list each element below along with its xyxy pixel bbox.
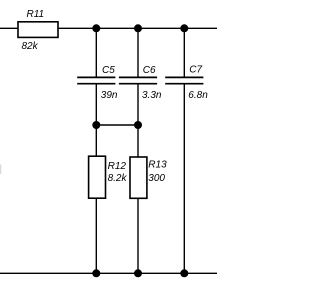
wire top net right segment	[58, 27, 217, 29]
wire R12 bottom lead	[95, 198, 97, 273]
svg-text:300: 300	[148, 173, 165, 184]
svg-text:C6: C6	[143, 65, 156, 76]
wire node row horizontal	[96, 124, 138, 126]
resistor R12	[89, 156, 106, 198]
junction dot top col1	[92, 24, 100, 32]
wire column1 top (C5 upper lead)	[95, 28, 97, 76]
capacitor C5	[77, 77, 115, 83]
junction dot top col2	[134, 24, 142, 32]
svg-text:R12: R12	[108, 161, 127, 172]
svg-text:82k: 82k	[22, 41, 39, 52]
wire C7 lower lead to bottom net	[183, 85, 185, 274]
junction dot bottom col2	[134, 269, 142, 277]
svg-text:39n: 39n	[101, 90, 118, 101]
capacitor C6	[119, 77, 157, 83]
wire C6 lower lead to node	[137, 85, 139, 126]
cropped text remnant at left edge	[0, 165, 1, 175]
junction dot node col1	[92, 121, 100, 129]
svg-text:R13: R13	[148, 159, 167, 170]
wire column2 top (C6 upper lead)	[137, 28, 139, 76]
svg-text:C5: C5	[102, 65, 115, 76]
svg-text:R11: R11	[27, 9, 45, 20]
wire C5 lower lead to node	[95, 85, 97, 126]
svg-text:C7: C7	[189, 65, 202, 76]
junction dot bottom col3	[180, 269, 188, 277]
wire top net left segment	[0, 27, 18, 29]
junction dot node col2	[134, 121, 142, 129]
resistor R11	[18, 22, 58, 38]
svg-text:3.3n: 3.3n	[142, 90, 162, 101]
resistor R13	[130, 157, 147, 198]
junction dot top col3	[180, 24, 188, 32]
svg-text:6.8n: 6.8n	[188, 90, 208, 101]
svg-text:8.2k: 8.2k	[108, 173, 128, 184]
junction dot bottom col1	[92, 269, 100, 277]
wire node to R13 top	[137, 125, 139, 157]
capacitor C7	[165, 77, 203, 83]
wire column3 top (C7 upper lead)	[183, 28, 185, 76]
wire R13 bottom lead	[137, 198, 139, 273]
wire bottom net	[0, 272, 217, 274]
wire node to R12 top	[95, 125, 97, 156]
